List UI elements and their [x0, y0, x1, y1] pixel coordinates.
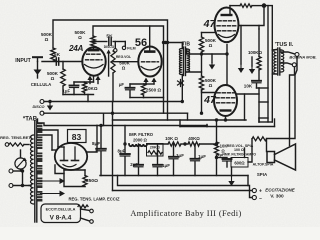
tube 47 lower grid dashes	[217, 92, 234, 94]
wire lower 47 plate down	[225, 116, 227, 120]
svg-text:40KΩ: 40KΩ	[188, 136, 200, 141]
transformer TUS II core	[277, 48, 279, 75]
wire bus corner右	[274, 119, 276, 127]
wire primary bottom	[29, 185, 31, 187]
wire cap to ladder	[257, 87, 260, 89]
svg-text:Ω: Ω	[209, 43, 213, 48]
terminal eccitazione plus	[252, 188, 256, 192]
svg-text:5K: 5K	[54, 52, 61, 58]
resistor 600 ohm field box	[231, 158, 248, 168]
ladder rung lower	[259, 101, 268, 103]
svg-text:CELLULA: CELLULA	[31, 82, 52, 87]
svg-text:1μF: 1μF	[176, 153, 184, 158]
svg-text:2μF: 2μF	[130, 162, 138, 167]
wire B plus corner	[206, 126, 208, 127]
wire vert 500K down to bus	[201, 90, 203, 113]
svg-text:REG.VOL: REG.VOL	[116, 55, 131, 59]
resistor 500K plate load 24A	[91, 36, 96, 47]
svg-text:100 Ω: 100 Ω	[234, 148, 244, 152]
capacitor 8uF second filter	[124, 144, 126, 153]
svg-text:TIB: TIB	[182, 42, 190, 48]
tube 47 upper grid dashes	[218, 20, 235, 22]
wire 83 to filament resistor	[55, 165, 64, 174]
node junction rails to interstage transformer	[164, 41, 167, 44]
terminal box 1	[90, 209, 94, 213]
resistor 500K grid lower 47	[199, 76, 203, 90]
wire field resistor vert	[244, 148, 246, 158]
wire long vertical left	[112, 102, 114, 191]
wire 56 cathode to ground corner	[130, 97, 144, 99]
voice coil terminal top	[295, 53, 299, 57]
wire input line	[42, 61, 83, 63]
transformer TIB secondary winding	[187, 49, 190, 72]
wire second bus	[44, 112, 188, 114]
wire TUS secondary to voice coil terminal bottom	[281, 63, 292, 65]
svg-text:μF: μF	[119, 82, 125, 87]
tube 83 envelope	[55, 143, 87, 170]
svg-text:10KΩ: 10KΩ	[85, 86, 97, 91]
svg-text:REG. TENS.RETI: REG. TENS.RETI	[0, 135, 32, 140]
wire screen feed 100K	[258, 26, 260, 30]
wire 83 top loop	[64, 169, 85, 171]
transformer filament tap arrow 2	[41, 193, 60, 195]
svg-text:Ω: Ω	[45, 37, 49, 42]
wire ladder right vertical	[267, 6, 269, 122]
capacitor 5K coupling to volume control	[108, 38, 110, 45]
wire anode feeds	[58, 146, 64, 148]
transformer power secondary winding	[37, 123, 42, 134]
transformer TIB primary winding	[179, 49, 182, 75]
wire between 47 cathode and lower 47	[226, 45, 228, 85]
wire vert 207	[206, 125, 208, 127]
wire field coil feed right	[267, 57, 298, 152]
node filter mid	[183, 142, 186, 145]
cellula pickup cell	[37, 62, 39, 70]
wire box down to ground arrow	[231, 167, 233, 176]
capacitor 2uF filter	[138, 144, 140, 163]
svg-text:ECCITAZIONE: ECCITAZIONE	[265, 188, 296, 193]
svg-text:47: 47	[203, 94, 217, 106]
wire screen upper 47	[239, 6, 265, 26]
svg-text:Ω: Ω	[78, 35, 82, 40]
resistor speaker field	[252, 137, 267, 141]
wire stub bus to filter line	[103, 113, 105, 125]
wire vert 259 down	[258, 118, 260, 122]
wire grid 56 from volume arm	[113, 61, 138, 63]
wire mains 2	[13, 185, 30, 187]
svg-text:1μF: 1μF	[198, 154, 206, 159]
potentiometer arm arrow REG VOL	[106, 50, 110, 54]
tube 24A grid dashes	[86, 59, 103, 61]
resistor 500K grid leak 47 upper	[201, 33, 203, 38]
tube 56 envelope	[138, 47, 161, 77]
svg-text:ECCIT.CELLULA: ECCIT.CELLULA	[46, 208, 76, 212]
capacitor 8uF cathode bypass 56	[130, 83, 146, 85]
svg-text:'TUS II.: 'TUS II.	[275, 42, 294, 48]
svg-text:Ω: Ω	[209, 83, 213, 88]
svg-text:BOBINA MOB.: BOBINA MOB.	[289, 55, 316, 60]
wire top supply rail from input grid resistor	[53, 20, 168, 120]
terminal tab	[40, 111, 44, 115]
wire third bus	[113, 119, 247, 121]
wire ladder left vertical	[258, 88, 260, 122]
wire TIB primary top	[181, 43, 183, 49]
wire bottom bus two	[118, 176, 253, 198]
variable resistor line regulator	[5, 143, 9, 147]
svg-text:SPIA: SPIA	[257, 172, 268, 177]
resistor 500K grid leak 24A	[62, 62, 64, 70]
transformer power primary winding	[30, 135, 33, 204]
mains terminal 1	[9, 169, 13, 173]
terminal eccitazione minus	[252, 195, 256, 199]
tube 56 filament arrows	[143, 78, 148, 83]
svg-text:20KΩ: 20KΩ	[150, 146, 160, 150]
wire filament loop	[64, 170, 85, 187]
svg-text:REG. TENS. LAMP. ECCIZ: REG. TENS. LAMP. ECCIZ	[68, 197, 120, 202]
wire junction to TIB primary	[164, 42, 183, 44]
speaker frame	[267, 152, 275, 163]
svg-text:INPUT: INPUT	[15, 58, 31, 64]
svg-text:56: 56	[135, 37, 147, 49]
svg-text:100KΩ: 100KΩ	[248, 50, 262, 55]
wire grid lead lower 47	[202, 90, 215, 93]
svg-text:DISCO: DISCO	[104, 45, 115, 49]
wire filter out	[181, 143, 188, 145]
wire tab to transformer	[43, 112, 45, 114]
wire bus one drop	[247, 176, 249, 186]
choke filter	[129, 144, 147, 146]
wire HV secondary top	[38, 123, 97, 126]
potentiometer 500K volume	[111, 51, 115, 73]
tube 47 upper cathode arc	[219, 35, 235, 38]
input terminal	[33, 56, 42, 58]
resistor 250 ohm hum	[83, 176, 87, 187]
ground symbol on bus	[48, 100, 51, 103]
wire supply to output transformer	[264, 6, 272, 50]
tube 24A plate	[88, 49, 100, 52]
wire film contact	[124, 42, 126, 47]
wire tab to transformer top	[37, 119, 39, 123]
wire regulator to primary	[24, 144, 29, 146]
wire lower 47 screen right	[237, 93, 259, 95]
tube 56 plate	[144, 50, 156, 53]
svg-text:5K: 5K	[106, 34, 113, 40]
tube 24A screen dashes	[87, 53, 101, 55]
voice coil terminal bottom	[292, 63, 296, 67]
transformer TUS primary winding	[274, 50, 277, 75]
ground arrow on secondary	[211, 63, 213, 65]
capacitor 5K input coupling	[55, 58, 57, 65]
capacitor 1uF cathode 24A	[93, 76, 95, 82]
mains terminal 2	[9, 184, 13, 188]
resistor 10K cathode 24A	[84, 81, 86, 84]
wire fourth bus	[180, 126, 275, 128]
label box 83	[68, 130, 87, 143]
wire TIB primary bottom to ground bus	[181, 75, 183, 102]
svg-text:47: 47	[203, 18, 217, 30]
svg-text:+: +	[259, 189, 262, 195]
resistor 500K grid input	[51, 48, 56, 61]
resistor 10K vertical	[214, 142, 218, 155]
ground arrow filter	[231, 177, 233, 181]
transformer TIB core	[183, 47, 185, 76]
wire coupling cap down to selector	[114, 42, 116, 49]
wire cathode net to ground	[63, 94, 94, 96]
capacitor 1uF filter c	[194, 144, 196, 157]
svg-text:83: 83	[72, 132, 82, 142]
wire B+ line	[97, 125, 207, 127]
svg-text:V. 300: V. 300	[270, 194, 284, 200]
ladder rung bottom	[259, 117, 268, 119]
wire TIB secondary bottom to grid chain	[187, 71, 202, 73]
wire HV secondary low	[38, 135, 52, 150]
wire box terminal 2	[81, 218, 90, 221]
svg-text:1μF: 1μF	[162, 163, 170, 168]
svg-text:2000 Ω: 2000 Ω	[133, 138, 147, 143]
tube 83 filament arc	[63, 165, 76, 167]
capacitor 1uF filter a	[157, 144, 159, 163]
svg-text:Ω: Ω	[51, 76, 55, 81]
wire TUS primary side	[272, 49, 276, 52]
tube 56 cathode arc	[141, 67, 159, 71]
ladder rung upper	[259, 87, 268, 89]
wire HV secondary mid	[38, 130, 58, 147]
svg-text:250Ω: 250Ω	[86, 178, 98, 184]
wire box right	[248, 139, 252, 162]
svg-text:600Ω: 600Ω	[234, 161, 245, 166]
tube 24A cathode arc	[85, 65, 104, 69]
svg-text:Amplificatore Baby III (Fedi): Amplificatore Baby III (Fedi)	[130, 209, 241, 218]
resistor plate stopper upper 47	[230, 5, 240, 7]
wire ground bus upper	[44, 101, 182, 103]
wire plate to coupling cap	[93, 41, 107, 43]
svg-text:DISCO: DISCO	[32, 105, 44, 109]
wire bottom bus three	[113, 190, 253, 192]
terminal disco ground	[40, 100, 44, 104]
resistor 20K in box	[147, 144, 164, 157]
wire vert 244	[244, 94, 246, 120]
capacitor 1uF filter b	[173, 144, 175, 155]
wire vert 216 to filter	[216, 120, 218, 142]
wire TUS secondary to voice coil terminal top	[280, 49, 282, 51]
svg-text:V 8-A.4: V 8-A.4	[50, 215, 72, 222]
wire pot to mains	[20, 169, 22, 171]
wire upper 47 plate to supply	[229, 6, 231, 14]
wire vert 225 lower plate	[225, 119, 227, 121]
tube 24A filament arrows	[87, 76, 92, 81]
svg-text:10K Ω: 10K Ω	[165, 136, 178, 141]
selector terminal disco	[114, 49, 117, 52]
wire grid upper 47	[202, 32, 215, 34]
wire choke to 10K	[147, 143, 168, 145]
wire second supply rail from 24A plate resistor	[93, 26, 164, 113]
tube 47 lower plate bar	[220, 109, 232, 111]
resistor 2500 ohm cathode 56	[144, 83, 155, 85]
svg-text:Ω: Ω	[122, 66, 126, 71]
wire bottom bus one	[100, 175, 248, 177]
wire vert 180	[179, 120, 181, 127]
svg-text:–: –	[259, 196, 262, 202]
svg-text:1μF: 1μF	[63, 89, 71, 94]
wire volume pot to ground bus	[112, 73, 114, 102]
svg-text:10K: 10K	[244, 84, 253, 89]
tube 47 lower envelope	[214, 85, 237, 116]
capacitor 10K screen bypass	[258, 70, 260, 80]
node 10k bottom	[215, 156, 218, 159]
wire second bus corner down	[187, 113, 189, 120]
capacitor 8uF first filter	[100, 126, 102, 148]
trimmer arrow small	[78, 205, 88, 208]
wire 83 cathode output	[87, 126, 97, 153]
tube 47 upper plate bar	[221, 14, 233, 16]
node b+ junction	[99, 124, 102, 127]
arrow down right	[251, 66, 253, 69]
arrow down mid	[240, 64, 242, 68]
svg-text:IMP. FILTRO: IMP. FILTRO	[129, 132, 154, 137]
box eccit cellula	[41, 204, 81, 223]
svg-text:ALTOP.SPIA: ALTOP.SPIA	[253, 163, 274, 167]
tube 56 grid dashes	[142, 61, 159, 63]
terminal box 2	[90, 220, 94, 224]
tube 83 anode 1	[63, 147, 65, 161]
speaker horn	[275, 144, 296, 170]
tube 47 upper envelope	[215, 8, 239, 43]
wire TIB secondary top to grids	[187, 49, 225, 54]
wire 56 plate to rail	[149, 26, 151, 47]
svg-text:2500 Ω: 2500 Ω	[146, 88, 161, 93]
wire mains 1	[13, 170, 23, 172]
capacitor 1uF output node	[217, 157, 228, 159]
svg-text:*TAB: *TAB	[23, 117, 38, 123]
transformer power core	[34, 121, 36, 222]
asterisk note mark	[178, 80, 184, 87]
wire field coil feed left	[290, 67, 295, 146]
svg-text:8μF: 8μF	[118, 149, 126, 154]
potentiometer mains adjust	[15, 158, 26, 169]
node supply junction	[262, 3, 267, 8]
transformer filament tap arrow 1	[41, 180, 60, 182]
wire grid leak to cathode net	[62, 86, 64, 95]
tube 83 anode 2	[74, 147, 76, 161]
wire box terminal 1	[81, 209, 90, 211]
svg-text:24A: 24A	[68, 44, 84, 53]
selector terminal film	[122, 46, 125, 49]
tube 24A envelope	[82, 47, 105, 75]
wire choke feed	[124, 126, 126, 145]
svg-text:8μF: 8μF	[92, 141, 100, 146]
transformer TUS secondary winding	[281, 50, 284, 72]
